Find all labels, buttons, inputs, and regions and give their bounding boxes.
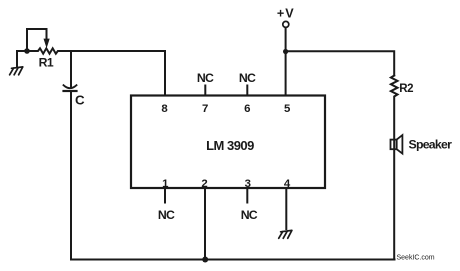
svg-text:2: 2 [201,178,207,190]
svg-text:Speaker: Speaker [409,138,453,152]
svg-text:8: 8 [161,103,167,115]
svg-text:6: 6 [244,103,250,115]
svg-text:1: 1 [162,178,169,190]
svg-text:R1: R1 [39,56,54,70]
svg-text:+V: +V [277,6,295,20]
svg-text:NC: NC [241,208,258,222]
svg-text:LM 3909: LM 3909 [206,138,254,153]
svg-text:5: 5 [284,103,291,115]
svg-text:NC: NC [239,71,256,85]
svg-text:4: 4 [284,178,291,190]
svg-text:3: 3 [245,178,251,190]
svg-text:NC: NC [158,208,175,222]
svg-text:R2: R2 [399,83,413,95]
svg-text:7: 7 [202,103,208,115]
svg-text:C: C [75,92,85,107]
svg-text:SeekIC.com: SeekIC.com [397,255,435,262]
svg-text:NC: NC [197,71,214,85]
